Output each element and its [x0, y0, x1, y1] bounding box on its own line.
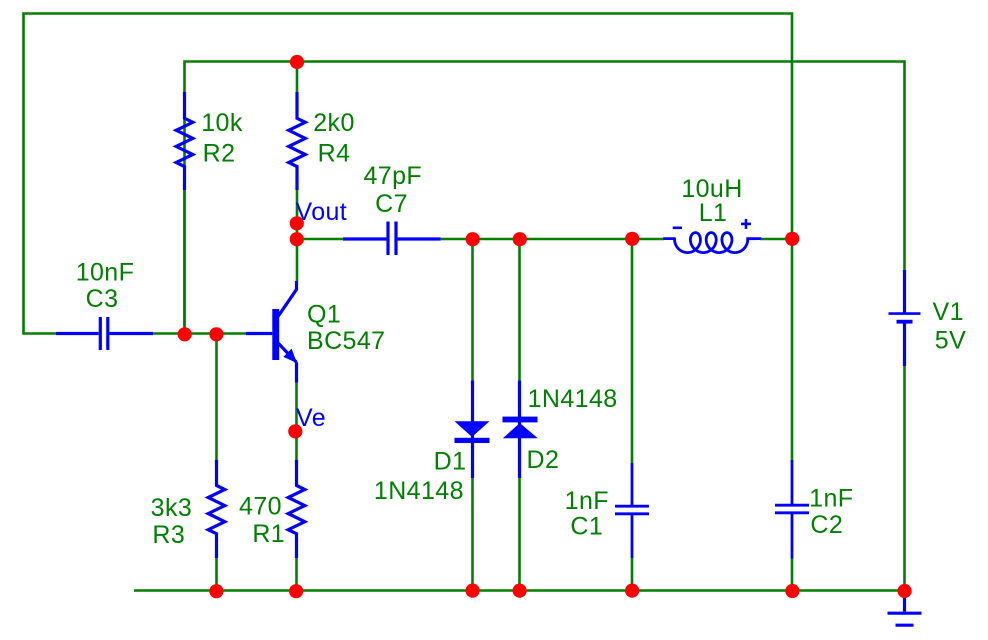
svg-text:Ve: Ve — [296, 404, 326, 432]
wire — [134, 589, 905, 592]
resistor R3 — [208, 460, 225, 558]
wire — [518, 478, 521, 591]
node C1 bottom junction — [625, 584, 639, 598]
diode D1 lead — [471, 381, 474, 479]
resistor R1 — [288, 460, 305, 558]
svg-text:R4: R4 — [318, 139, 351, 167]
svg-text:5V: 5V — [935, 326, 966, 354]
wire — [791, 559, 794, 591]
node base-R2 junction — [178, 327, 192, 341]
node D2 top junction — [513, 232, 527, 246]
ground — [888, 591, 922, 625]
svg-text:V1: V1 — [933, 298, 964, 326]
diode D2 — [503, 417, 538, 439]
svg-text:D2: D2 — [527, 446, 560, 474]
svg-text:Vout: Vout — [296, 198, 348, 226]
svg-text:D1: D1 — [434, 447, 467, 475]
wire — [518, 239, 521, 381]
wire — [183, 190, 186, 335]
svg-text:C1: C1 — [570, 512, 603, 540]
wire — [296, 62, 299, 93]
node base-R3 junction — [209, 327, 223, 341]
svg-text:C7: C7 — [375, 190, 408, 218]
L1 polarity minus — [673, 227, 682, 230]
capacitor C3 — [56, 317, 153, 350]
node collector junction — [290, 232, 304, 246]
node Ve label dot — [288, 424, 302, 438]
svg-text:Q1: Q1 — [307, 301, 341, 329]
wire — [903, 366, 906, 597]
wire — [471, 239, 474, 381]
svg-text:C2: C2 — [810, 511, 843, 539]
node ground junction — [898, 584, 912, 598]
svg-text:10nF: 10nF — [76, 258, 135, 286]
node L1-right junction — [785, 232, 799, 246]
battery V1 — [889, 270, 921, 366]
node Vout label dot — [290, 216, 304, 230]
svg-text:R2: R2 — [203, 139, 236, 167]
wire — [110, 332, 246, 335]
wire — [215, 558, 218, 591]
node supply-top junction — [290, 55, 304, 69]
wire — [760, 238, 793, 241]
resistor R2 — [176, 92, 193, 190]
wire — [441, 238, 664, 241]
svg-text:BC547: BC547 — [307, 327, 385, 355]
wire — [185, 62, 905, 335]
wire — [295, 558, 298, 591]
node D2 bottom junction — [513, 584, 527, 598]
capacitor C7 — [343, 222, 441, 256]
svg-text:1N4148: 1N4148 — [528, 385, 618, 413]
svg-text:R1: R1 — [252, 520, 285, 548]
wire — [215, 333, 218, 460]
svg-text:L1: L1 — [699, 199, 728, 227]
transistor Q1 — [246, 281, 297, 383]
svg-text:3k3: 3k3 — [151, 494, 193, 522]
capacitor C2 — [775, 460, 809, 559]
wire — [297, 238, 344, 241]
svg-text:1nF: 1nF — [565, 487, 609, 515]
svg-text:1N4148: 1N4148 — [374, 477, 464, 505]
wire — [471, 478, 474, 591]
svg-text:47pF: 47pF — [364, 162, 423, 190]
diode D1 — [455, 421, 490, 443]
svg-text:470: 470 — [239, 493, 282, 521]
svg-text:1nF: 1nF — [809, 484, 853, 512]
node R3 bottom junction — [209, 584, 223, 598]
L1 polarity plus — [741, 219, 751, 229]
wire — [631, 239, 634, 463]
wire — [24, 14, 793, 334]
wire — [296, 190, 299, 240]
capacitor C1 — [615, 463, 649, 558]
node D1 bottom junction — [466, 584, 480, 598]
wire — [631, 558, 634, 591]
node R1 bottom junction — [289, 584, 303, 598]
wire — [296, 239, 299, 281]
svg-text:R3: R3 — [152, 521, 185, 549]
node D1 top junction — [466, 232, 480, 246]
diode D2 lead — [518, 381, 521, 479]
wire — [22, 332, 56, 335]
svg-text:10k: 10k — [201, 109, 243, 137]
svg-text:C3: C3 — [86, 285, 119, 313]
wire — [791, 239, 794, 460]
wire — [295, 382, 298, 460]
inductor L1 — [663, 233, 761, 253]
node C2 bottom junction — [785, 584, 799, 598]
resistor R4 — [289, 92, 306, 190]
svg-text:2k0: 2k0 — [313, 109, 355, 137]
node C1-L1 junction — [625, 232, 639, 246]
